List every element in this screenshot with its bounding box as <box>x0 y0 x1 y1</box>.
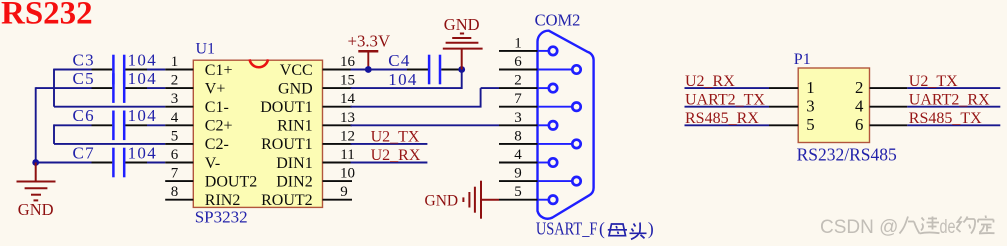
svg-text:GND: GND <box>278 80 313 97</box>
svg-text:+3.3V: +3.3V <box>348 31 391 50</box>
U1 pin 3 C1- <box>165 106 193 108</box>
junction dot C4/GND/pin15 <box>458 66 465 73</box>
capacitor C5 <box>113 73 124 103</box>
P1 pin 1 <box>769 87 798 89</box>
svg-text:C1+: C1+ <box>205 62 233 79</box>
svg-text:UART2_RX: UART2_RX <box>909 92 990 109</box>
svg-text:9: 9 <box>514 166 522 182</box>
svg-text:104: 104 <box>128 106 157 125</box>
svg-text:V-: V- <box>205 155 220 172</box>
glyph 母 <box>608 224 627 236</box>
svg-text:C5: C5 <box>73 69 95 88</box>
svg-text:C2-: C2- <box>205 136 229 153</box>
U1 pin 12 ROUT1 <box>323 143 353 145</box>
U1 pin 8 RIN2 <box>165 199 193 201</box>
glyph 违 <box>928 218 937 220</box>
glyph 定 <box>985 216 988 219</box>
wire net RS485_TX from P1 pin6 <box>907 124 1000 126</box>
svg-text:5: 5 <box>514 184 522 200</box>
svg-text:104: 104 <box>128 69 157 88</box>
svg-text:6: 6 <box>514 54 522 70</box>
P1 pin 6 <box>870 124 908 126</box>
svg-text:3: 3 <box>171 91 179 107</box>
COM2 pin 9 <box>499 180 538 182</box>
svg-text:3: 3 <box>806 97 814 116</box>
wire net UART2_RX from P1 pin4 <box>907 106 1000 108</box>
wire net U2_RX stub <box>351 162 428 164</box>
svg-text:COM2: COM2 <box>535 11 581 30</box>
wire pin3 C1- row <box>54 106 165 108</box>
wire GND node to cap C7 <box>36 162 92 164</box>
svg-text:C7: C7 <box>73 143 95 162</box>
svg-text:104: 104 <box>388 70 417 89</box>
svg-text:RIN2: RIN2 <box>205 192 241 209</box>
svg-text:DOUT2: DOUT2 <box>205 173 257 190</box>
wire net U2_TX stub <box>351 143 428 145</box>
svg-text:ROUT2: ROUT2 <box>261 192 313 209</box>
svg-text:ROUT1: ROUT1 <box>261 136 313 153</box>
wire vertical C3 left to pin3 row <box>53 69 55 107</box>
wire cap C5 right to pin2 <box>147 87 165 89</box>
svg-text:RS485_RX: RS485_RX <box>685 110 759 127</box>
svg-text:16: 16 <box>340 54 356 70</box>
COM2 pin 3 <box>499 124 538 126</box>
COM2 pin 7 <box>499 106 538 108</box>
wire vertical C6 left to pin5 row <box>53 124 55 143</box>
capacitor C6 <box>113 111 124 141</box>
U1 pin 14 DOUT1 <box>323 106 353 108</box>
U1 pin 15 GND <box>323 87 353 89</box>
ground GND top earth symbol <box>443 34 483 70</box>
svg-text:UART2_TX: UART2_TX <box>685 92 765 109</box>
svg-text:10: 10 <box>340 166 355 182</box>
U1 pin 13 RIN1 <box>323 124 353 126</box>
svg-text:U1: U1 <box>196 41 216 58</box>
junction dot GND node <box>32 159 39 166</box>
svg-text:RIN1: RIN1 <box>277 118 313 135</box>
svg-text:RS232: RS232 <box>1 0 93 31</box>
svg-text:13: 13 <box>340 110 355 126</box>
power +3.3V symbol <box>358 51 378 69</box>
wire pin4 C2+ to cap C6 <box>54 124 92 126</box>
svg-text:3: 3 <box>514 110 522 126</box>
wire pin2 V+ to cap C5 <box>36 87 92 89</box>
COM2 pin 2 <box>499 87 538 89</box>
capacitor C3 <box>113 55 124 85</box>
U1 pin 10 DIN2 <box>323 180 353 182</box>
svg-text:VCC: VCC <box>280 62 313 79</box>
U1 pin 7 DOUT2 <box>165 180 193 182</box>
svg-text:5: 5 <box>806 115 814 134</box>
P1 pin 2 <box>870 87 908 89</box>
svg-text:C3: C3 <box>73 50 95 69</box>
wire net U2_TX from P1 pin2 <box>907 87 1000 89</box>
svg-text:6: 6 <box>171 147 179 163</box>
svg-text:U2_TX: U2_TX <box>909 73 958 90</box>
svg-text:U2_RX: U2_RX <box>371 147 421 164</box>
U1 pin 16 VCC <box>323 69 353 71</box>
svg-text:U2_TX: U2_TX <box>371 129 420 146</box>
svg-text:V+: V+ <box>205 80 226 97</box>
svg-text:(: ( <box>599 219 605 239</box>
wire pin1 C1+ to cap C3 <box>54 69 92 71</box>
ground GND left earth symbol <box>17 163 56 201</box>
U1 pin 1 C1+ <box>165 69 193 71</box>
svg-text:6: 6 <box>855 115 863 134</box>
U1 pin 6 V- <box>165 162 193 164</box>
connector COM2 DB9 outline <box>537 31 593 219</box>
svg-text:1: 1 <box>171 54 179 70</box>
P1 pin 4 <box>870 106 908 108</box>
svg-text:SP3232: SP3232 <box>195 208 248 227</box>
svg-text:7: 7 <box>171 166 179 182</box>
svg-text:C1-: C1- <box>205 99 229 116</box>
svg-text:RS485_TX: RS485_TX <box>909 110 982 127</box>
ground GND right rotated earth symbol <box>463 181 499 219</box>
wire net RS485_RX to P1 pin5 <box>685 124 770 126</box>
wire pin13 RIN1 to COM2 pin3 <box>351 124 499 126</box>
svg-text:8: 8 <box>514 128 522 144</box>
svg-text:104: 104 <box>128 143 157 162</box>
svg-text:9: 9 <box>340 184 348 200</box>
svg-text:USART_F: USART_F <box>536 219 598 239</box>
IC U1 SP3232 body <box>193 60 322 207</box>
svg-text:2: 2 <box>171 73 179 89</box>
U1 pin 4 C2+ <box>165 124 193 126</box>
wire cap C6 right to pin4 <box>147 124 165 126</box>
glyph 头 <box>630 223 647 240</box>
svg-text:DOUT1: DOUT1 <box>260 99 312 116</box>
svg-text:DIN2: DIN2 <box>276 173 312 190</box>
svg-text:2: 2 <box>514 73 522 89</box>
connector P1 body <box>798 68 869 143</box>
svg-text:4: 4 <box>855 97 864 116</box>
wire vertical C5 left down to GND node <box>35 87 37 162</box>
svg-text:1: 1 <box>806 78 814 97</box>
svg-text:12: 12 <box>340 128 355 144</box>
svg-text:CSDN @: CSDN @ <box>820 217 898 238</box>
wire pin5 C2- row <box>54 143 165 145</box>
svg-text:P1: P1 <box>794 51 811 68</box>
wire pin15 GND row <box>351 70 462 90</box>
U1 pin 11 DIN1 <box>323 162 353 164</box>
svg-text:C2+: C2+ <box>205 118 233 135</box>
svg-text:11: 11 <box>340 147 354 163</box>
U1 pin 5 C2- <box>165 143 193 145</box>
wire pin16 VCC row <box>351 69 407 71</box>
svg-text:GND: GND <box>18 200 54 219</box>
junction dot +3.3V tap <box>365 66 372 73</box>
U1 pin 2 V+ <box>165 87 193 89</box>
P1 pin 5 <box>769 124 798 126</box>
svg-text:104: 104 <box>128 50 157 69</box>
svg-text:14: 14 <box>340 91 356 107</box>
wire pin14 DOUT1 to COM2 pin2 <box>351 88 499 108</box>
svg-text:U2_RX: U2_RX <box>685 73 735 90</box>
svg-text:4: 4 <box>171 110 179 126</box>
svg-text:5: 5 <box>171 128 179 144</box>
wire net UART2_TX to P1 pin3 <box>685 106 770 108</box>
glyph 约 <box>957 217 962 229</box>
wire net U2_RX to P1 pin1 <box>685 87 770 89</box>
capacitor C4 <box>407 69 462 71</box>
capacitor C7 <box>113 148 124 178</box>
wire cap C7 right to pin6 <box>147 162 165 164</box>
wire cap C3 right to pin1 <box>147 69 165 71</box>
COM2 pin 5 <box>499 199 538 201</box>
svg-text:8: 8 <box>171 184 179 200</box>
svg-text:C4: C4 <box>388 51 410 70</box>
P1 pin 3 <box>769 106 798 108</box>
IC U1 notch <box>250 59 268 67</box>
svg-text:): ) <box>648 219 654 239</box>
U1 pin 9 ROUT2 <box>323 199 353 201</box>
glyph 久 <box>900 217 909 234</box>
COM2 pin 6 <box>499 69 538 71</box>
COM2 pin 4 <box>499 162 538 164</box>
svg-text:DIN1: DIN1 <box>276 155 312 172</box>
svg-text:1: 1 <box>514 35 522 51</box>
svg-text:7: 7 <box>514 91 522 107</box>
svg-text:de: de <box>940 217 956 238</box>
COM2 pin 1 <box>499 50 538 52</box>
svg-text:C6: C6 <box>73 106 95 125</box>
svg-text:2: 2 <box>855 78 863 97</box>
svg-text:GND: GND <box>425 193 459 210</box>
svg-text:15: 15 <box>340 73 355 89</box>
svg-text:RS232/RS485: RS232/RS485 <box>797 145 897 165</box>
svg-text:GND: GND <box>444 15 480 34</box>
COM2 pin 8 <box>499 143 538 145</box>
svg-text:4: 4 <box>514 147 522 163</box>
